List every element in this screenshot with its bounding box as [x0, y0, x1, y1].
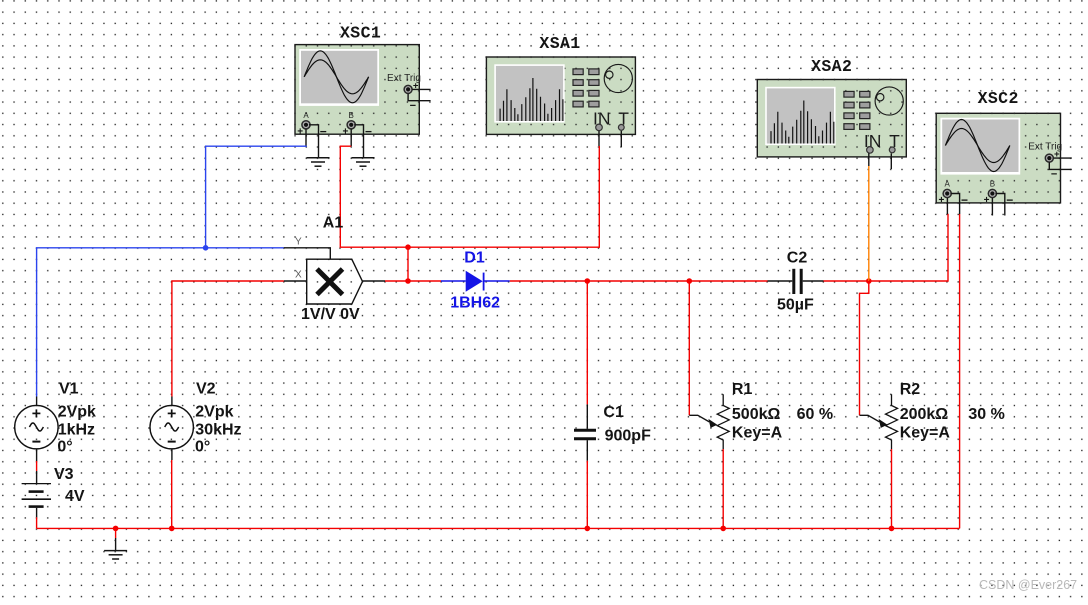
- svg-text:2Vpk: 2Vpk: [195, 403, 233, 420]
- wire XSC2 B+ stub: [991, 198, 993, 216]
- node junction right of C2: [866, 278, 872, 284]
- svg-text:B: B: [990, 180, 995, 189]
- svg-text:D1: D1: [464, 249, 485, 266]
- ac source V1: [15, 381, 96, 461]
- potentiometer R1: [717, 381, 782, 449]
- svg-text:−: −: [961, 193, 968, 207]
- node junction C1 bottom: [585, 526, 591, 532]
- spectrum analyzer XSA1 body: [486, 57, 635, 134]
- svg-text:Y: Y: [295, 236, 302, 247]
- ground bottom: [104, 551, 127, 559]
- svg-text:B: B: [349, 111, 354, 120]
- ac source V2: [150, 381, 242, 460]
- wire XSC1 B+ stub: [350, 129, 352, 146]
- oscilloscope XSC1 body: [295, 45, 419, 135]
- svg-text:−: −: [410, 100, 416, 112]
- svg-text:−: −: [365, 125, 372, 139]
- label R2 percent: [968, 406, 1004, 423]
- wire red C1 branch: [586, 281, 588, 404]
- svg-text:C1: C1: [603, 404, 624, 421]
- wire XSC1 A- to ground: [309, 125, 319, 158]
- svg-text:XSA2: XSA2: [811, 57, 852, 76]
- svg-text:+: +: [342, 126, 348, 137]
- svg-text:+: +: [297, 126, 303, 137]
- wire red R1 wiper branch: [688, 281, 690, 415]
- battery V3: [22, 466, 85, 517]
- node junction R2 bottom: [889, 526, 895, 532]
- svg-text:A1: A1: [323, 215, 344, 232]
- ground under XSC1 A: [307, 158, 330, 166]
- capacitor C2: [768, 250, 824, 314]
- wire red XSC1 B to XSA1 IN and node: [340, 146, 599, 247]
- wire XSC2 A- stub: [950, 194, 959, 215]
- svg-text:50µF: 50µF: [777, 297, 814, 314]
- ground under XSC1 B: [352, 158, 375, 166]
- wire XSC1 B- to ground: [354, 125, 363, 158]
- label R1 percent: [797, 406, 833, 423]
- svg-text:−: −: [1051, 169, 1057, 181]
- wire orange XSA2 IN down to node: [868, 166, 870, 281]
- wire red V1 to V3: [36, 461, 38, 471]
- svg-text:0°: 0°: [195, 439, 210, 456]
- wire XSC2 B- stub: [995, 194, 1004, 216]
- wire XSA1 IN stub: [598, 131, 600, 146]
- svg-text:500kΩ: 500kΩ: [732, 406, 781, 423]
- node junction at R1 wiper branch: [687, 278, 693, 284]
- svg-text:30 %: 30 %: [968, 406, 1004, 423]
- wire R1 wiper arrow: [689, 415, 717, 428]
- svg-text:R2: R2: [900, 381, 921, 398]
- svg-text:1kHz: 1kHz: [58, 421, 95, 438]
- wire red node step down to R2 wiper: [860, 281, 869, 415]
- wire X input lead: [284, 280, 307, 282]
- node blue junction: [203, 245, 209, 251]
- svg-text:C2: C2: [787, 250, 808, 267]
- wire XSC2 A+ stub: [946, 198, 948, 214]
- wire red C1 to bottom rail: [586, 461, 588, 529]
- svg-text:V2: V2: [196, 381, 216, 398]
- svg-text:XSA1: XSA1: [539, 34, 580, 53]
- wire Y input lead: [284, 248, 331, 259]
- potentiometer R2: [886, 381, 951, 449]
- svg-text:Key=A: Key=A: [732, 425, 783, 442]
- svg-text:200kΩ: 200kΩ: [900, 406, 949, 423]
- oscilloscope XSC1: [297, 24, 430, 139]
- wire red R2 to bottom rail: [891, 449, 893, 528]
- svg-text:1BH62: 1BH62: [450, 294, 500, 311]
- wire red XSC2 A- down to bottom rail: [959, 214, 961, 528]
- wire blue V1 to XSC1 A: [37, 146, 307, 396]
- svg-text:−: −: [1006, 193, 1013, 207]
- svg-text:XSC1: XSC1: [340, 24, 381, 43]
- wire red rail to ground: [115, 528, 117, 538]
- wire red D1 to C2: [510, 280, 768, 282]
- node junction V2: [169, 526, 175, 532]
- oscilloscope XSC2 body: [936, 113, 1060, 203]
- svg-text:30kHz: 30kHz: [195, 421, 241, 438]
- svg-text:900pF: 900pF: [605, 427, 651, 444]
- wire A1 output lead: [363, 280, 386, 282]
- wire red bottom rail: [37, 527, 960, 529]
- svg-text:1V/V 0V: 1V/V 0V: [301, 306, 360, 323]
- node junction at B+/IN net over A1: [405, 244, 411, 250]
- multiplier A1: [295, 215, 363, 324]
- wire node down to output line: [407, 247, 409, 281]
- svg-text:V1: V1: [59, 381, 79, 398]
- wire XSC1 A+ stub: [305, 129, 307, 146]
- wire red V3 to bottom rail: [36, 517, 38, 528]
- svg-text:60 %: 60 %: [797, 406, 833, 423]
- wire ground lead: [115, 538, 117, 551]
- oscilloscope XSC2: [938, 89, 1071, 207]
- wire red V2 to bottom rail: [171, 460, 173, 528]
- svg-text:XSC2: XSC2: [978, 89, 1019, 108]
- svg-text:Key=A: Key=A: [900, 425, 951, 442]
- diode D1: [441, 249, 510, 311]
- svg-text:+: +: [1054, 149, 1060, 160]
- svg-text:A: A: [945, 180, 951, 189]
- svg-text:+: +: [984, 195, 990, 206]
- svg-text:R1: R1: [732, 381, 753, 398]
- wire red V2 to X input: [172, 281, 284, 397]
- wire red output to D1: [385, 280, 441, 282]
- wire red R1 to bottom rail: [722, 449, 724, 528]
- svg-text:V3: V3: [54, 466, 74, 483]
- wire XSA2 IN stub: [868, 153, 870, 166]
- svg-text:+: +: [413, 80, 419, 91]
- capacitor C1: [574, 404, 651, 461]
- wire R2 wiper arrow: [860, 415, 888, 428]
- wire red node to XSC2 A: [869, 214, 948, 281]
- svg-text:4V: 4V: [65, 488, 85, 505]
- node junction at C1 branch: [585, 278, 591, 284]
- svg-text:X: X: [295, 270, 302, 281]
- wire XSA1 T stub: [620, 131, 622, 147]
- svg-text:−: −: [320, 125, 327, 139]
- spectrum analyzer XSA2 body: [757, 80, 906, 157]
- spectrum analyzer XSA2: [765, 57, 903, 153]
- svg-text:A: A: [303, 111, 309, 120]
- wire red C2 to node: [824, 280, 869, 282]
- node junction ground: [113, 526, 119, 532]
- wire XSA2 T stub: [890, 153, 892, 169]
- svg-text:2Vpk: 2Vpk: [58, 403, 96, 420]
- svg-text:+: +: [938, 195, 944, 206]
- node junction on output line: [405, 278, 411, 284]
- wire blue junction to Y input: [206, 247, 284, 249]
- node junction R1 bottom: [720, 526, 726, 532]
- svg-text:0°: 0°: [57, 439, 72, 456]
- watermark: [979, 578, 1077, 592]
- spectrum analyzer XSA1: [494, 34, 632, 131]
- svg-text:CSDN @Ever267: CSDN @Ever267: [979, 578, 1077, 592]
